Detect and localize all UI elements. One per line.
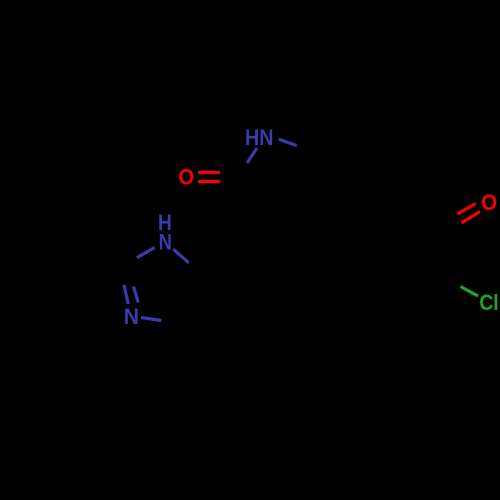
svg-text:N: N bbox=[124, 303, 139, 329]
svg-text:HN: HN bbox=[245, 126, 274, 150]
svg-text:N: N bbox=[159, 231, 172, 255]
bond C2=O lower line (red half) bbox=[198, 180, 220, 183]
bond C=O upper line (red half, right ketone) bbox=[458, 204, 476, 215]
svg-text:O: O bbox=[481, 191, 497, 216]
bond imidazole C2=N3 left line (blue half) bbox=[124, 285, 128, 304]
bond CH2-Cl (green half) bbox=[461, 287, 479, 297]
bond imidazole N1-C5 (blue half) bbox=[173, 249, 188, 263]
bond imidazole N3-C4 (blue half) bbox=[141, 318, 162, 321]
bond N1-C5 (lactam, blue half) bbox=[279, 139, 297, 145]
svg-text:O: O bbox=[178, 166, 194, 190]
bond C=O lower line (red half, right ketone) bbox=[462, 212, 481, 224]
svg-text:Cl: Cl bbox=[479, 291, 498, 315]
bond N1-C2 (lactam, blue half) bbox=[247, 148, 257, 163]
bond imidazole C2=N3 right line (blue half) bbox=[133, 287, 138, 303]
bond C2=O upper line (red half) bbox=[198, 171, 220, 174]
bond imidazole N1-C2 (blue half) bbox=[137, 248, 155, 258]
